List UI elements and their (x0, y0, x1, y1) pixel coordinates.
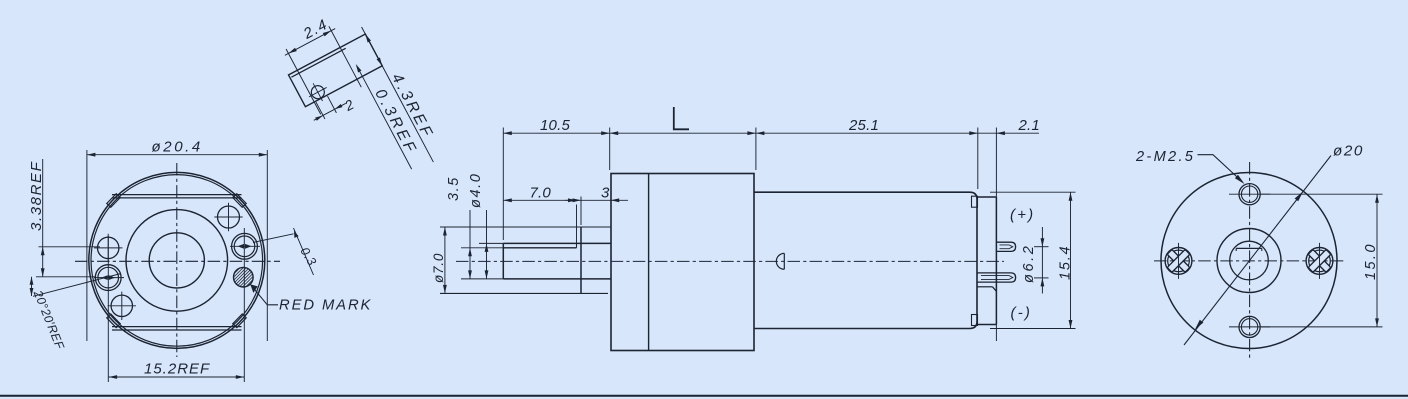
motor rear outer circle (1161, 173, 1337, 349)
top crimp flat line upper (112, 194, 242, 196)
shaft flat end tick (576, 243, 578, 247)
motor crimp tab top (972, 196, 978, 207)
screw right vertical crosshair (1319, 243, 1321, 279)
eccentric hole right outer (232, 233, 258, 259)
detail dim 2.4 right extension line (329, 26, 361, 87)
dim 20deg20 arrow up (30, 277, 34, 285)
svg-text:10.5: 10.5 (540, 117, 570, 134)
detail dim 4.3REF dimension line (362, 27, 434, 162)
rear boss outer circle (1217, 229, 1281, 293)
crimp tab top-left (107, 194, 120, 208)
dim 20deg20 vertical connector (31, 277, 33, 296)
svg-text:ø20.4: ø20.4 (152, 139, 203, 156)
eccentric hole right arrows (238, 244, 252, 249)
eccentric hole left outer (95, 265, 121, 291)
rear view horizontal centerline (1154, 260, 1344, 262)
svg-text:(-): (-) (1011, 305, 1033, 322)
dim L label (674, 107, 689, 129)
dim 3 left extension line (580, 197, 582, 226)
bottom crimp flat line upper (112, 326, 242, 328)
dim 25.1 arrows (756, 131, 978, 135)
dim 15.0 lower ext line (1261, 326, 1383, 328)
screw hole upper-right crosshair (214, 203, 242, 231)
dim dia4.0 dimension line (486, 210, 488, 279)
dia20 leader line (1184, 156, 1331, 346)
dim dia6.2 upper ext line (1034, 246, 1049, 248)
dim 15.0 upper ext line (1261, 193, 1383, 195)
motor body outline (754, 192, 977, 328)
svg-text:3: 3 (601, 185, 610, 202)
detail dim 2.4 arrows (288, 29, 333, 55)
dim dia6.2 dimension line (1041, 227, 1043, 294)
middle view centerline (456, 260, 1004, 262)
detail dim 0.3REF arrow (354, 63, 361, 72)
LEFT-VIEW (28, 139, 372, 383)
center bore circle (149, 233, 204, 288)
chain dimension line (503, 132, 1039, 134)
dim dia7.0 arrows (443, 227, 447, 293)
dim 20deg20 angled line (33, 274, 121, 297)
screw hole lower-left crosshair (108, 292, 136, 320)
svg-text:(+): (+) (1010, 206, 1035, 223)
eccentric hole right long vertical centerline (243, 228, 245, 382)
dim 7.0 extension line (576, 205, 578, 244)
dim 15.4 lower ext line (990, 328, 1076, 330)
screw right slot B (1308, 250, 1331, 273)
bottom page border line (0, 395, 1408, 397)
bottom crimp flat line lower (112, 329, 242, 331)
shaft detail body rectangle (289, 34, 383, 107)
dim 3.38REF lower extension line (36, 276, 96, 278)
MIDDLE-VIEW (431, 107, 1076, 351)
terminal top slot (1000, 245, 1013, 249)
RIGHT-VIEW (1135, 143, 1383, 359)
detail dim 2.4 left extension line (286, 49, 321, 114)
eccentric hole left arrows (101, 275, 115, 280)
detail dim 2.4 dimension line (285, 29, 335, 56)
chain extension line at gearbox rear (755, 128, 757, 171)
chain extension line at shaft tip (502, 128, 504, 241)
shaft top edge (503, 242, 611, 244)
gearbox case rim circle (91, 175, 263, 347)
svg-text:ø20: ø20 (1333, 143, 1364, 160)
gearbox body rectangle (611, 174, 754, 351)
dim 15.2REF arrows (109, 375, 245, 379)
horizontal centerline (75, 260, 280, 262)
screw left slot B (1167, 250, 1190, 273)
svg-text:ø7.0: ø7.0 (431, 253, 446, 283)
screw hole upper-left (98, 237, 119, 258)
shaft detail cross hole crosshair (304, 79, 331, 106)
svg-text:3.38REF: 3.38REF (28, 161, 45, 231)
dim 20.4 right extension line (266, 150, 268, 341)
dim 3.5 arrows (468, 248, 472, 279)
vent dimple arc (776, 253, 784, 269)
red mark hatched dot (234, 267, 254, 287)
crimp tab bottom-left (107, 314, 120, 328)
M2.5 hole bottom outer (1239, 316, 1260, 337)
M2.5 hole top crosshair (1229, 193, 1270, 195)
end cap right edge (995, 197, 997, 325)
chain extension line at motor rear (977, 128, 979, 190)
dim 3 arrows (573, 198, 620, 202)
vertical centerline (176, 163, 178, 357)
screw left slot A (1167, 250, 1190, 273)
svg-text:15.2REF: 15.2REF (144, 361, 210, 378)
shaft flat extension line for dim 3.5 (461, 247, 503, 249)
2-M2.5 leader line (1198, 155, 1243, 182)
dim dia4.0 arrows (485, 243, 489, 279)
top crimp flat line lower (112, 197, 242, 199)
dim 3.38REF upper extension line (39, 246, 101, 248)
boss bottom edge with extension (440, 292, 608, 294)
M2.5 hole top outer (1239, 184, 1260, 205)
M2.5 hole bottom inner (1241, 319, 1257, 335)
end cap top edge (977, 196, 996, 198)
shaft detail cross hole (309, 83, 327, 101)
boss top edge with extension (440, 226, 611, 228)
svg-text:20°20′REF: 20°20′REF (30, 287, 67, 352)
detail dim 4.3REF arrows (364, 33, 384, 67)
screw right slot A (1308, 250, 1331, 273)
dim 20deg20 arrow down (30, 288, 34, 296)
brush holder chamfer (993, 287, 997, 292)
chain extension line at cap rear (995, 128, 997, 342)
screw hole upper-left crosshair (94, 234, 122, 262)
rear view vertical centerline (1249, 162, 1251, 359)
brush holder line (977, 286, 993, 288)
DETAIL-VIEW (272, 0, 448, 203)
dim 20.4 dimension line (87, 154, 267, 156)
gear cover circle (126, 210, 228, 312)
terminal bottom outline (977, 273, 1016, 282)
dim 15.4 arrows (1069, 192, 1073, 328)
gearbox face plate line (648, 174, 650, 351)
dim 20.4 left extension line (86, 150, 88, 341)
dim dia6.2 arrows (1041, 238, 1045, 286)
dim 15.4 dimension line (1070, 192, 1072, 328)
shaft bottom edge (503, 278, 611, 280)
dim dia7.0 dimension line (444, 227, 446, 293)
svg-text:ø4.0: ø4.0 (468, 173, 484, 208)
dim 10.5 arrows (503, 131, 609, 135)
dim 0.3 leader line (253, 234, 294, 243)
dim L arrows (610, 131, 756, 135)
dia20 leader arrow upper (1295, 191, 1304, 201)
shaft detail flat line (291, 48, 345, 77)
svg-text:2-M2.5: 2-M2.5 (1135, 149, 1195, 165)
eccentric hole right inner (234, 236, 255, 257)
rear bearing flat chord end ticks (1236, 248, 1262, 251)
screw left outer circle (1165, 248, 1192, 275)
boss left edge (580, 227, 582, 293)
eccentric hole left inner (98, 267, 119, 288)
screw right inner circle (1309, 250, 1331, 272)
end cap bottom edge (977, 324, 996, 326)
crimp tab bottom-right (233, 314, 246, 328)
svg-text:RED MARK: RED MARK (279, 298, 372, 314)
svg-text:15.0: 15.0 (1363, 242, 1379, 280)
dim 20.4 arrows (87, 153, 267, 157)
svg-text:7.0: 7.0 (530, 185, 552, 202)
detail dim 0.3REF dimension line (357, 66, 412, 169)
dim 7.0 dimension line (503, 199, 576, 201)
dim 0.3 steep line (294, 228, 314, 275)
vent dimple flat line (783, 253, 785, 269)
shaft tip edge (502, 243, 504, 279)
dim 3 dimension line (565, 199, 628, 201)
rear bearing flat chord (1236, 247, 1262, 249)
dim 15.0 dimension line (1376, 194, 1378, 327)
eccentric hole left long vertical centerline (107, 236, 109, 382)
screw left vertical crosshair (1178, 243, 1180, 279)
shaft top extension line for dim 4.0 (479, 242, 503, 244)
crimp tab top-right (233, 194, 246, 208)
gearbox outer circle (89, 172, 265, 348)
detail dim 2 left extension line (316, 102, 325, 119)
svg-text:3.5: 3.5 (446, 176, 462, 201)
dim dia6.2 lower ext line (1034, 277, 1049, 279)
svg-text:25.1: 25.1 (848, 117, 879, 134)
eccentric hole left horizontal line (94, 277, 124, 279)
dim 15.0 arrows (1375, 194, 1379, 327)
detail dim 2 dimension line (314, 103, 346, 120)
screw right outer circle (1306, 248, 1333, 275)
svg-text:15.4: 15.4 (1058, 245, 1074, 280)
dim 0.3 arrow (294, 231, 299, 238)
terminal bottom slot (981, 276, 1013, 280)
detail dim 2 arrows (315, 104, 342, 121)
M2.5 hole top inner (1241, 186, 1257, 202)
motor crimp tab bottom (972, 315, 978, 326)
M2.5 hole bottom crosshair (1229, 326, 1270, 328)
screw hole upper-right (218, 206, 240, 228)
dim 15.4 upper ext line (990, 191, 1076, 193)
svg-text:2.4: 2.4 (300, 16, 331, 43)
shaft flat edge line (503, 247, 576, 249)
screw left inner circle (1168, 250, 1190, 272)
rear bearing circle (1230, 241, 1269, 280)
dim 15.2REF dimension line (109, 376, 245, 378)
red mark leader line (250, 284, 278, 305)
svg-text:0.3: 0.3 (297, 245, 319, 269)
shaft bottom extension line (461, 278, 503, 280)
dim 3.38REF dimension line (42, 159, 44, 277)
dim 3.5 dimension line (469, 210, 471, 279)
2-M2.5 leader arrow (1235, 175, 1245, 184)
screw hole lower-left (111, 295, 132, 316)
dim 7.0 arrows (503, 198, 576, 202)
terminal top outline (996, 242, 1015, 251)
detail dim 2 right extension line (328, 96, 337, 113)
dim 3.38REF arrows (41, 247, 45, 277)
svg-text:2.1: 2.1 (1018, 117, 1040, 134)
red mark leader arrow (250, 284, 258, 293)
dia20 leader arrow lower (1195, 320, 1204, 330)
chain extension line at gearbox face (609, 128, 611, 171)
eccentric hole right horizontal line (230, 245, 260, 247)
dim 2.1 outside arrow right (996, 131, 1005, 135)
svg-text:ø6.2: ø6.2 (1021, 244, 1037, 283)
